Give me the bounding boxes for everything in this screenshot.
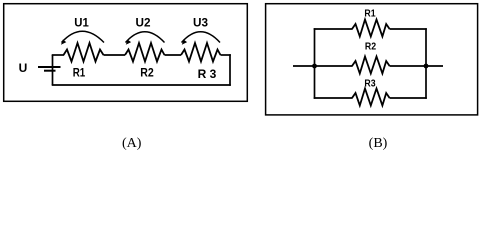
svg-text:U3: U3 [193,15,208,29]
wire left lead [293,65,315,67]
voltage arrow U1 [61,15,104,45]
svg-text:U: U [19,61,28,75]
caption (A) [122,136,142,151]
wire top: R1 to R2 [104,54,126,56]
resistor R1 [64,43,104,79]
wire right lead [426,65,443,67]
battery U [19,61,61,75]
resistor R1 (parallel) [352,9,390,37]
resistor R2 [125,43,165,79]
svg-text:R3: R3 [364,79,376,90]
svg-text:R2: R2 [140,65,154,79]
wire top branch right [390,28,427,30]
wire middle branch right [390,65,426,67]
svg-text:U2: U2 [136,15,151,29]
caption (B) [369,136,388,151]
node junction right [424,64,429,69]
svg-text:R2: R2 [365,42,377,53]
wire top: battery to R1 [52,54,64,56]
svg-text:R 3: R 3 [198,67,217,81]
wire bottom branch left [314,97,353,99]
node junction left [312,64,317,69]
wire right rail [425,28,427,99]
wire top branch left [314,28,353,30]
wire top: R2 to R3 [165,54,182,56]
wire left side of series loop [52,55,54,85]
svg-text:U1: U1 [74,15,89,29]
resistor R3 (parallel) [352,79,390,106]
voltage arrow U3 [182,15,221,45]
svg-text:(A): (A) [122,136,142,151]
resistor R2 (parallel) [352,42,390,74]
wire top: R3 to right corner [221,54,231,56]
wire left rail [314,28,316,99]
svg-text:R1: R1 [364,9,376,20]
resistor R3 [181,43,221,81]
svg-text:(B): (B) [369,136,388,151]
wire bottom of series loop [52,84,231,86]
wire right side of series loop [229,54,231,86]
svg-text:R1: R1 [73,65,86,79]
wire middle branch left [315,65,353,67]
wire bottom branch right [390,97,427,99]
voltage arrow U2 [126,15,165,45]
